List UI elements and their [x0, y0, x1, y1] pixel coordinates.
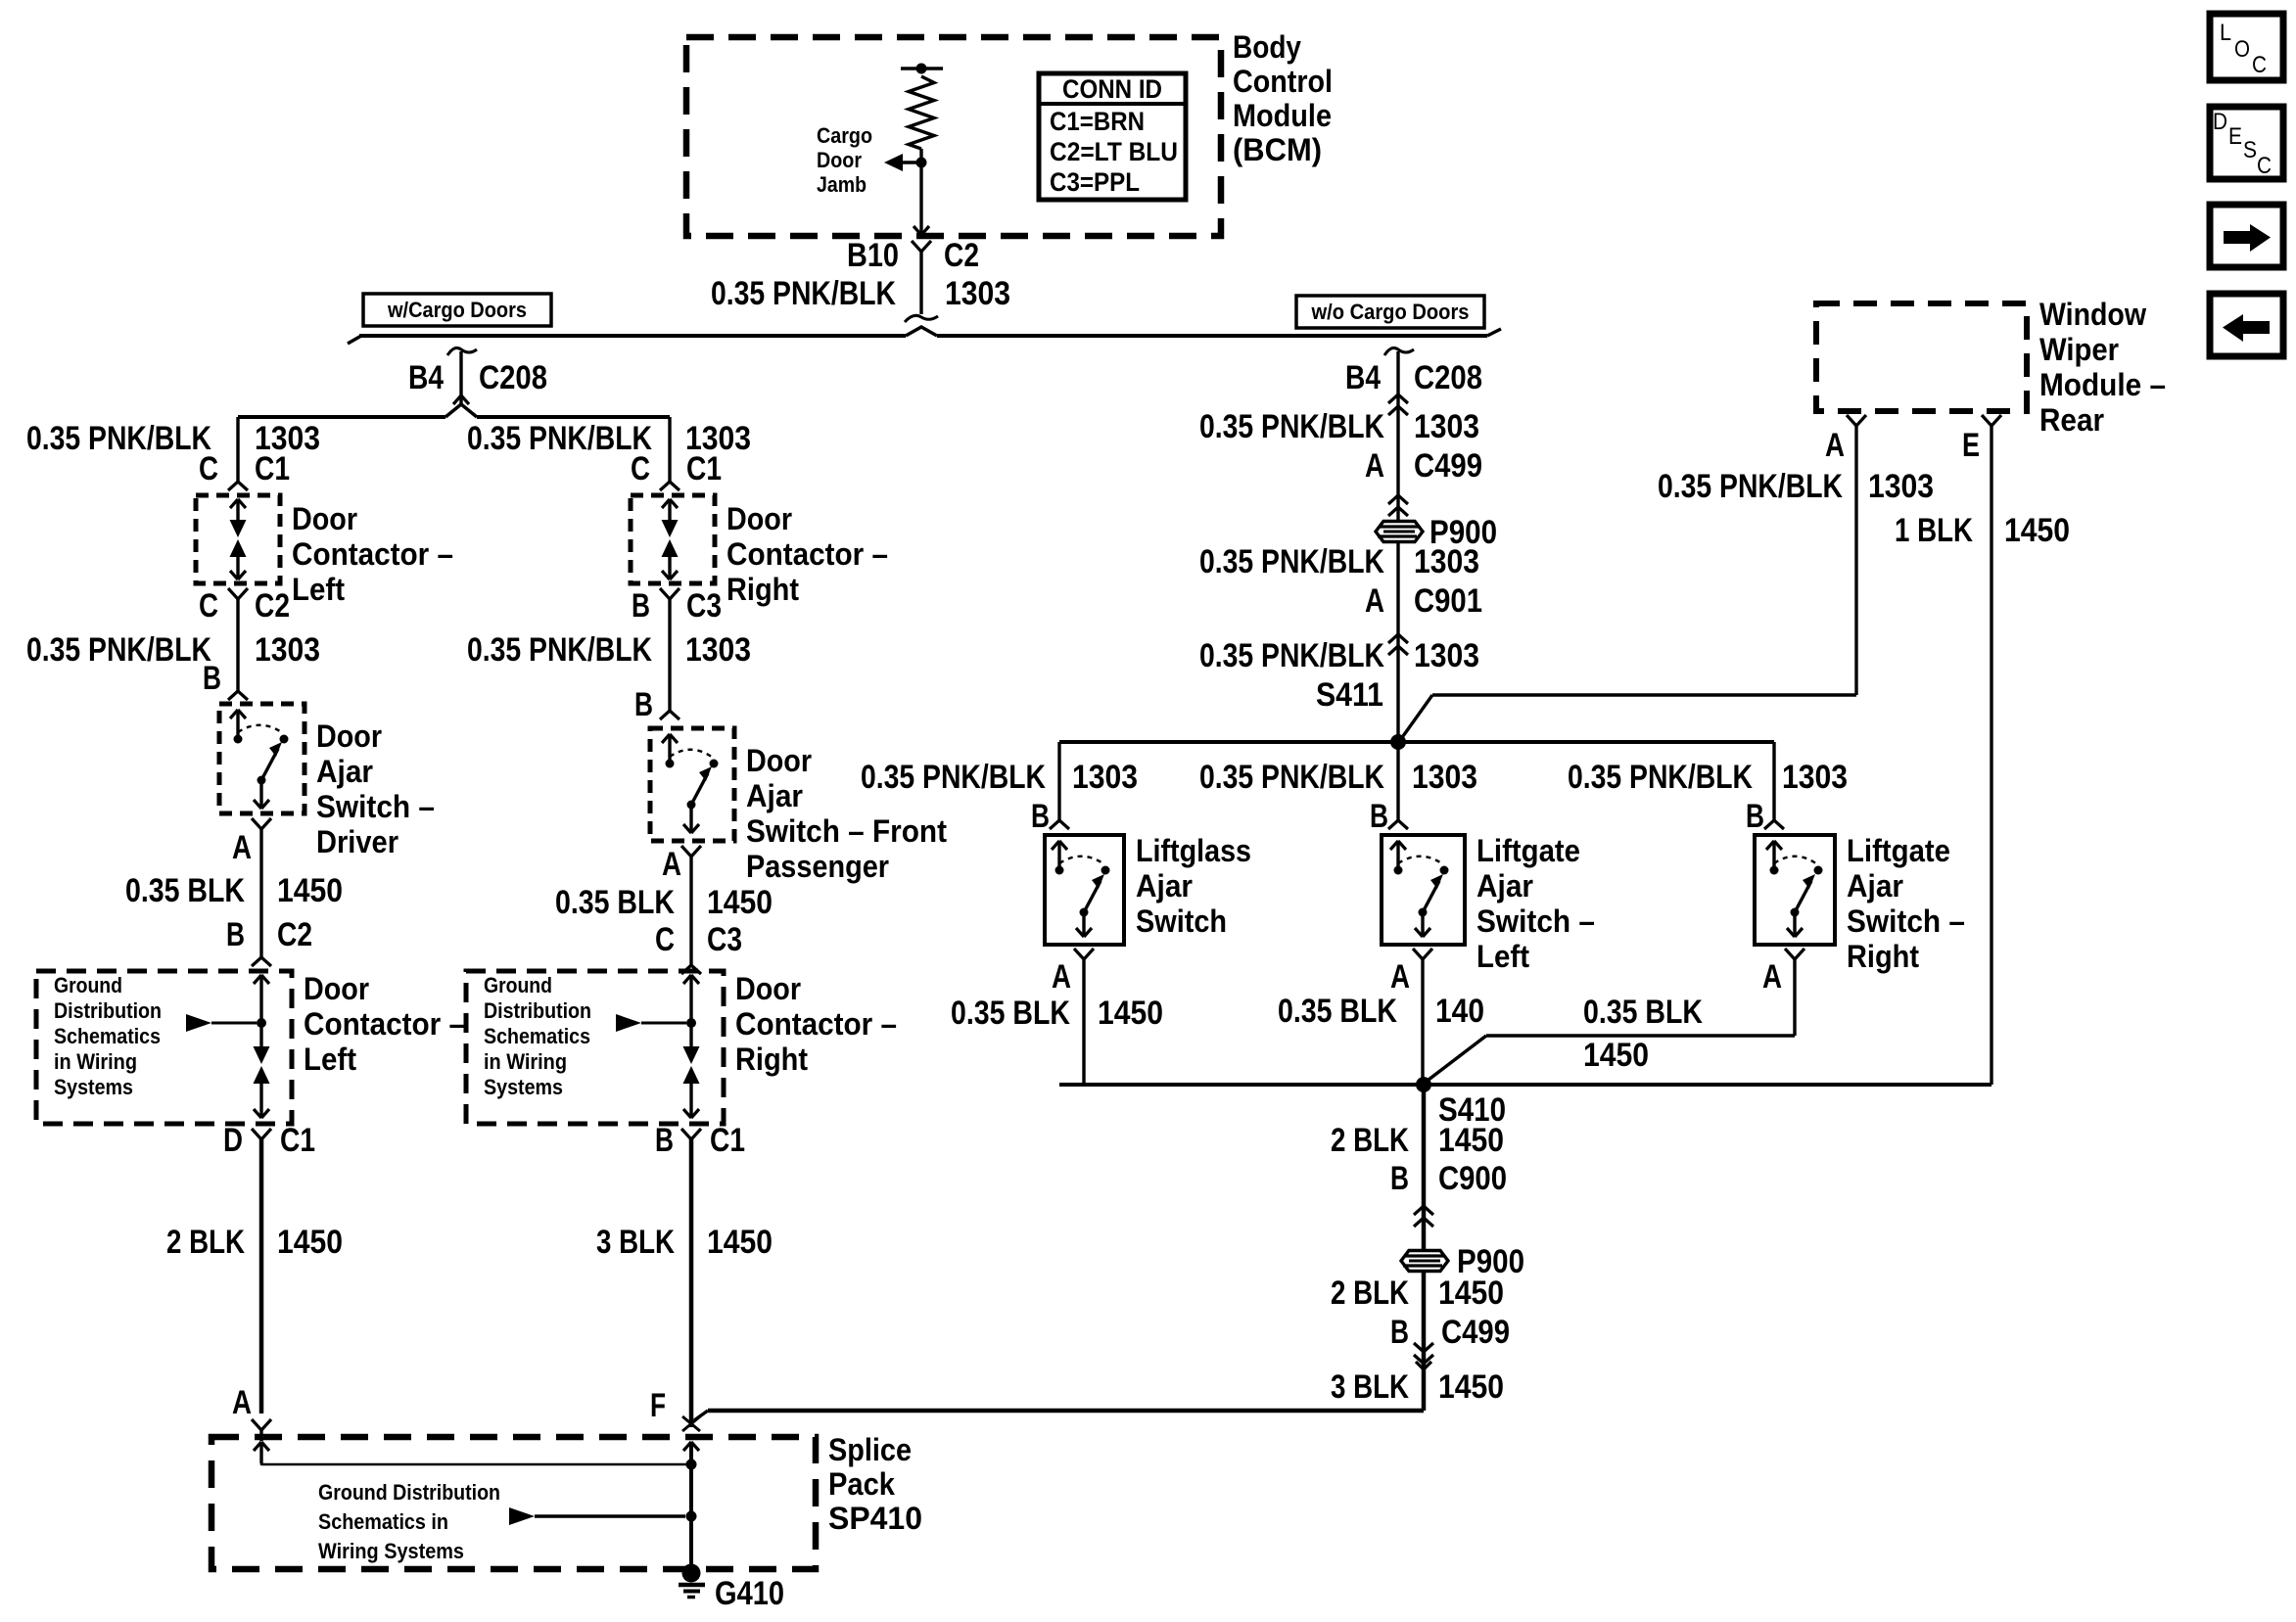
component Door Ajar Switch Driver dashed box [219, 704, 305, 813]
ground distribution box left dashed [36, 971, 292, 1124]
wire cargo-doors split bus [238, 415, 445, 419]
component Liftgate Ajar Switch Left box [1382, 835, 1465, 945]
svg-text:in Wiring: in Wiring [54, 1049, 137, 1074]
svg-text:w/o Cargo Doors: w/o Cargo Doors [1311, 300, 1470, 324]
svg-text:Rear: Rear [2039, 402, 2104, 438]
svg-text:Schematics in: Schematics in [318, 1509, 448, 1534]
ground G410 [682, 1564, 701, 1583]
connector C2 foot [905, 315, 938, 322]
svg-text:C901: C901 [1414, 582, 1482, 620]
wire 3 BLK to splice pack [689, 1139, 694, 1427]
svg-text:Right: Right [1847, 939, 1919, 974]
svg-text:1303: 1303 [1868, 468, 1934, 505]
wire C901 to S411 [1396, 634, 1399, 742]
svg-text:Splice: Splice [828, 1432, 912, 1467]
svg-text:C3: C3 [686, 587, 722, 625]
wire resistor to tap node [919, 149, 922, 162]
wire wiper A to S411 [1854, 426, 1857, 695]
svg-text:1303: 1303 [945, 275, 1010, 312]
DESC nav box [2210, 107, 2283, 179]
svg-text:0.35 BLK: 0.35 BLK [555, 884, 675, 921]
component Splice Pack SP410 dashed box [211, 1437, 816, 1569]
svg-text:C208: C208 [1414, 359, 1482, 396]
svg-text:A: A [1052, 958, 1071, 996]
node splice junction 2 [686, 1511, 697, 1522]
wire C208 to C499 [1396, 351, 1399, 495]
connector C1 fork below lower contactor left [252, 1129, 261, 1139]
svg-text:Wiring Systems: Wiring Systems [318, 1539, 464, 1563]
svg-text:B: B [1390, 1160, 1409, 1197]
svg-text:B4: B4 [408, 359, 444, 396]
pointer arrow cargo door jamb [884, 154, 903, 171]
svg-text:O: O [2234, 36, 2250, 63]
svg-text:140: 140 [1435, 993, 1484, 1030]
svg-text:Liftgate: Liftgate [1476, 833, 1580, 868]
svg-text:C: C [199, 587, 218, 625]
svg-text:1450: 1450 [2004, 512, 2070, 549]
wire C499 to P900 [1396, 495, 1399, 521]
connector P900 pass-through (lower) [1401, 1251, 1448, 1272]
connector C2 fork below contactor left [228, 588, 238, 599]
wire liftgate switch bus [1059, 740, 1774, 744]
svg-text:A: A [232, 1384, 252, 1421]
svg-text:C3=PPL: C3=PPL [1050, 167, 1140, 197]
svg-text:C1: C1 [255, 450, 290, 487]
svg-text:Schematics: Schematics [54, 1024, 161, 1048]
liftgate ajar switch right symbol [1766, 841, 1774, 850]
svg-text:B: B [1031, 798, 1050, 835]
svg-text:Ajar: Ajar [1476, 868, 1533, 904]
component Liftgate Ajar Switch Right box [1755, 835, 1835, 945]
svg-text:Liftglass: Liftglass [1136, 833, 1251, 868]
svg-text:Door: Door [726, 501, 792, 536]
svg-text:1450: 1450 [277, 1224, 343, 1261]
LOC nav box [2210, 14, 2283, 80]
svg-text:Switch: Switch [1136, 904, 1227, 939]
svg-text:G410: G410 [715, 1575, 784, 1612]
svg-text:Door: Door [817, 148, 862, 172]
liftgate ajar switch left symbol [1390, 841, 1398, 850]
svg-text:Systems: Systems [484, 1075, 563, 1099]
svg-text:Systems: Systems [54, 1075, 133, 1099]
svg-text:Module: Module [1233, 98, 1332, 133]
table CONN ID [1039, 73, 1186, 200]
svg-text:A: A [1365, 582, 1384, 620]
svg-text:1450: 1450 [277, 872, 343, 909]
wire contactor left to ajar switch driver [236, 599, 239, 691]
door contactor left (lower) symbol [254, 975, 261, 984]
resistor cargo door jamb top node [901, 67, 943, 70]
svg-text:0.35 PNK/BLK: 0.35 PNK/BLK [1199, 759, 1384, 796]
wire liftgate right switch down [1793, 959, 1796, 1036]
connector fork below liftgate right switch [1785, 949, 1795, 959]
svg-text:Driver: Driver [316, 824, 398, 859]
svg-text:Ajar: Ajar [316, 754, 373, 789]
svg-text:0.35 PNK/BLK: 0.35 PNK/BLK [467, 631, 652, 669]
svg-text:2 BLK: 2 BLK [1331, 1274, 1409, 1312]
svg-text:Left: Left [292, 572, 345, 607]
wire S411 to liftgate right switch [1772, 742, 1775, 820]
svg-text:Door: Door [735, 971, 801, 1006]
connector C1 fork below lower contactor right [681, 1129, 691, 1139]
svg-text:E: E [2228, 123, 2242, 150]
svg-text:Ajar: Ajar [1847, 868, 1903, 904]
svg-text:A: A [1390, 958, 1410, 996]
svg-text:C1=BRN: C1=BRN [1050, 107, 1145, 136]
svg-text:Switch – Front: Switch – Front [746, 813, 947, 849]
svg-text:Door: Door [292, 501, 357, 536]
door contactor left (upper) symbol [230, 499, 238, 508]
door ajar switch passenger symbol [662, 734, 670, 743]
wire w/cargo main bus [359, 334, 906, 338]
svg-text:1450: 1450 [1098, 995, 1163, 1032]
svg-text:Module –: Module – [2039, 367, 2166, 402]
svg-text:S: S [2243, 137, 2257, 163]
svg-text:C: C [631, 450, 650, 487]
connector fork below liftglass switch [1074, 949, 1084, 959]
svg-text:Cargo: Cargo [817, 123, 872, 148]
connector fork below liftgate left switch [1413, 949, 1423, 959]
svg-text:Door: Door [304, 971, 369, 1006]
svg-text:Ground: Ground [54, 973, 122, 997]
svg-text:C: C [2257, 153, 2272, 179]
svg-text:Contactor –: Contactor – [292, 536, 453, 572]
liftglass ajar switch symbol [1052, 841, 1059, 850]
svg-text:w/Cargo Doors: w/Cargo Doors [387, 298, 527, 322]
svg-text:Wiper: Wiper [2039, 332, 2119, 367]
svg-text:Right: Right [735, 1042, 808, 1077]
svg-text:B4: B4 [1345, 359, 1381, 396]
wire split to door contactor left [236, 417, 239, 482]
svg-text:0.35 PNK/BLK: 0.35 PNK/BLK [467, 420, 652, 457]
svg-text:C2: C2 [277, 916, 312, 953]
svg-text:C: C [655, 921, 675, 958]
svg-text:1303: 1303 [1072, 759, 1138, 796]
svg-text:0.35 PNK/BLK: 0.35 PNK/BLK [861, 759, 1046, 796]
node S410 splice [1416, 1077, 1431, 1092]
svg-text:D: D [2213, 109, 2227, 135]
svg-text:Distribution: Distribution [484, 998, 591, 1023]
pointer arrow into left ground wire [186, 1014, 211, 1032]
svg-text:1303: 1303 [1782, 759, 1848, 796]
svg-text:B: B [1370, 798, 1388, 835]
svg-text:D: D [223, 1122, 243, 1159]
svg-text:Passenger: Passenger [746, 849, 889, 884]
pointer arrow into splice wire [509, 1507, 535, 1525]
wire liftglass switch to S410 bus [1082, 959, 1085, 1085]
svg-text:Body: Body [1233, 29, 1301, 65]
svg-text:Left: Left [1476, 939, 1529, 974]
wire liftgate right to S410 diagonal [1486, 1034, 1795, 1037]
svg-text:Contactor –: Contactor – [735, 1006, 897, 1042]
svg-text:0.35 PNK/BLK: 0.35 PNK/BLK [1658, 468, 1843, 505]
svg-text:Ajar: Ajar [1136, 868, 1193, 904]
wire ajar passenger to lower contactor right [689, 857, 692, 965]
svg-text:1303: 1303 [1414, 637, 1479, 674]
connector fork above splice pack left [252, 1419, 261, 1430]
svg-text:E: E [1962, 427, 1980, 464]
wire S410 to C900 [1422, 1085, 1427, 1261]
svg-text:C2=LT BLU: C2=LT BLU [1050, 137, 1178, 166]
svg-text:B: B [203, 660, 221, 697]
svg-text:0.35 PNK/BLK: 0.35 PNK/BLK [1568, 759, 1753, 796]
svg-text:SP410: SP410 [828, 1501, 922, 1536]
svg-text:C499: C499 [1414, 447, 1482, 485]
svg-text:1450: 1450 [707, 884, 773, 921]
svg-text:L: L [2220, 20, 2231, 46]
svg-text:A: A [1825, 427, 1845, 464]
svg-text:1303: 1303 [255, 631, 320, 669]
svg-text:1450: 1450 [1583, 1037, 1649, 1074]
label box w/Cargo Doors [363, 294, 551, 326]
svg-text:Jamb: Jamb [817, 172, 867, 197]
wire 3 BLK return horizontal [708, 1409, 1424, 1413]
svg-text:C3: C3 [707, 921, 742, 958]
svg-text:Window: Window [2039, 297, 2146, 332]
resistor R cargo door jamb [909, 76, 934, 149]
svg-text:C1: C1 [710, 1122, 745, 1159]
connector fork wiper pin A [1847, 415, 1856, 426]
svg-text:A: A [1762, 958, 1782, 996]
wire C208 drop (left) [459, 351, 462, 395]
connector C208 curl (right) [1384, 348, 1414, 355]
svg-text:Door: Door [316, 718, 382, 754]
svg-text:3 BLK: 3 BLK [596, 1224, 675, 1261]
svg-text:Switch –: Switch – [316, 789, 435, 824]
svg-text:Switch –: Switch – [1476, 904, 1595, 939]
svg-text:1450: 1450 [1438, 1122, 1504, 1159]
wire tap to BCM pin B10 [919, 162, 922, 224]
svg-text:0.35 PNK/BLK: 0.35 PNK/BLK [26, 631, 211, 669]
module BCM dashed outline [686, 37, 1221, 236]
component Door Ajar Switch Front Passenger dashed box [650, 728, 734, 841]
svg-text:C900: C900 [1438, 1160, 1507, 1197]
svg-text:0.35 BLK: 0.35 BLK [951, 995, 1070, 1032]
svg-text:1450: 1450 [1438, 1368, 1504, 1406]
svg-text:C2: C2 [255, 587, 290, 625]
svg-text:S411: S411 [1316, 676, 1383, 714]
connector fork below ajar driver [252, 818, 261, 829]
ground distribution box right dashed [466, 971, 724, 1124]
svg-text:A: A [1365, 447, 1384, 485]
node splice junction 1 [686, 1460, 697, 1470]
svg-text:C2: C2 [944, 237, 979, 274]
svg-text:Pack: Pack [828, 1466, 895, 1502]
svg-text:C1: C1 [686, 450, 722, 487]
connector C3 fork below contactor right [660, 588, 670, 599]
connector fork below ajar passenger [681, 846, 691, 857]
svg-text:Contactor –: Contactor – [726, 536, 888, 572]
svg-text:2 BLK: 2 BLK [1331, 1122, 1409, 1159]
svg-text:Contactor –: Contactor – [304, 1006, 465, 1042]
svg-text:Ajar: Ajar [746, 778, 803, 813]
svg-text:B: B [655, 1122, 674, 1159]
svg-text:A: A [232, 829, 252, 866]
svg-text:B: B [634, 686, 653, 723]
component Liftglass Ajar Switch box [1045, 835, 1124, 945]
svg-text:1450: 1450 [707, 1224, 773, 1261]
door contactor right (lower) symbol [683, 975, 691, 984]
label box w/o Cargo Doors [1296, 296, 1484, 328]
svg-text:C208: C208 [479, 359, 547, 396]
wire ajar driver to door contactor lower left [259, 829, 262, 957]
wire into splice pack left [259, 1430, 262, 1441]
svg-text:1303: 1303 [1414, 543, 1479, 580]
wire S411 diagonal to wiper A [1403, 695, 1432, 736]
splice pack left entry arrow [254, 1442, 261, 1451]
prev-page arrow box [2210, 294, 2283, 356]
connector C2 pin B10 fork [912, 241, 921, 252]
svg-text:Right: Right [726, 572, 799, 607]
svg-text:0.35 BLK: 0.35 BLK [1583, 994, 1703, 1031]
svg-text:2 BLK: 2 BLK [166, 1224, 245, 1261]
svg-text:C: C [199, 450, 218, 487]
svg-text:B: B [1746, 798, 1764, 835]
component Door Contactor Left (upper) dashed box [196, 495, 280, 583]
svg-text:C1: C1 [280, 1122, 315, 1159]
wire contactor right to ajar passenger [668, 599, 671, 711]
svg-text:1450: 1450 [1438, 1274, 1504, 1312]
pointer arrow into right ground wire [616, 1014, 641, 1032]
svg-text:CONN ID: CONN ID [1062, 74, 1162, 104]
svg-text:Ground: Ground [484, 973, 552, 997]
svg-text:Distribution: Distribution [54, 998, 162, 1023]
splice pack F entry arrow [683, 1442, 691, 1451]
svg-text:A: A [662, 846, 681, 883]
wire liftgate left switch to S410 [1421, 959, 1424, 1085]
component Door Contactor Right (upper) dashed box [631, 495, 715, 583]
svg-text:1 BLK: 1 BLK [1895, 512, 1973, 549]
node cargo door jamb tap [916, 158, 927, 168]
svg-text:in Wiring: in Wiring [484, 1049, 567, 1074]
wire S410 bus [1059, 1083, 1991, 1087]
svg-text:1303: 1303 [1414, 408, 1479, 445]
module Window Wiper Module Rear dashed box [1816, 303, 2027, 411]
svg-text:F: F [650, 1387, 666, 1424]
svg-text:B10: B10 [847, 237, 899, 274]
svg-text:0.35 BLK: 0.35 BLK [1278, 993, 1397, 1030]
wire B10 to bus [919, 252, 922, 314]
svg-text:3 BLK: 3 BLK [1331, 1368, 1409, 1406]
svg-text:0.35 PNK/BLK: 0.35 PNK/BLK [711, 275, 896, 312]
svg-text:Left: Left [304, 1042, 356, 1077]
svg-text:0.35 PNK/BLK: 0.35 PNK/BLK [26, 420, 211, 457]
wire P900 to C901 [1396, 542, 1399, 634]
svg-text:Control: Control [1233, 64, 1333, 99]
node S411 splice [1390, 734, 1406, 750]
svg-text:Schematics: Schematics [484, 1024, 590, 1048]
svg-text:C499: C499 [1441, 1314, 1510, 1351]
svg-text:Liftgate: Liftgate [1847, 833, 1950, 868]
door ajar switch driver symbol [230, 710, 238, 718]
door contactor right (upper) symbol [662, 499, 670, 508]
svg-text:(BCM): (BCM) [1233, 132, 1322, 167]
svg-text:C: C [2252, 52, 2267, 78]
svg-text:0.35 PNK/BLK: 0.35 PNK/BLK [1199, 637, 1384, 674]
connector fork wiper pin E [1982, 415, 1991, 426]
wire 2 BLK to splice pack [259, 1139, 264, 1413]
wire splice pack left jumper [260, 1463, 263, 1465]
svg-text:B: B [226, 916, 245, 953]
wire split to door contactor right [668, 417, 671, 482]
svg-text:1303: 1303 [1412, 759, 1477, 796]
svg-text:0.35 PNK/BLK: 0.35 PNK/BLK [1199, 408, 1384, 445]
connector C208 curl (left) [447, 348, 477, 355]
wire S411 bus to liftglass switch [1057, 742, 1060, 820]
svg-text:0.35 PNK/BLK: 0.35 PNK/BLK [1199, 543, 1384, 580]
svg-text:B: B [1390, 1314, 1409, 1351]
wire S411 to liftgate left switch [1396, 742, 1399, 820]
svg-text:Door: Door [746, 743, 812, 778]
svg-text:Ground Distribution: Ground Distribution [318, 1480, 500, 1505]
wire C900 to C499 lower [1422, 1272, 1427, 1411]
next-page arrow box [2210, 205, 2283, 267]
splice crimp X at F [682, 1416, 700, 1431]
svg-text:0.35 BLK: 0.35 BLK [125, 872, 245, 909]
svg-text:B: B [632, 587, 650, 625]
svg-text:Switch –: Switch – [1847, 904, 1965, 939]
svg-text:1303: 1303 [685, 631, 751, 669]
wire wiper E to S410 [1990, 426, 1992, 1085]
connector P900 pass-through (upper) [1376, 522, 1423, 542]
